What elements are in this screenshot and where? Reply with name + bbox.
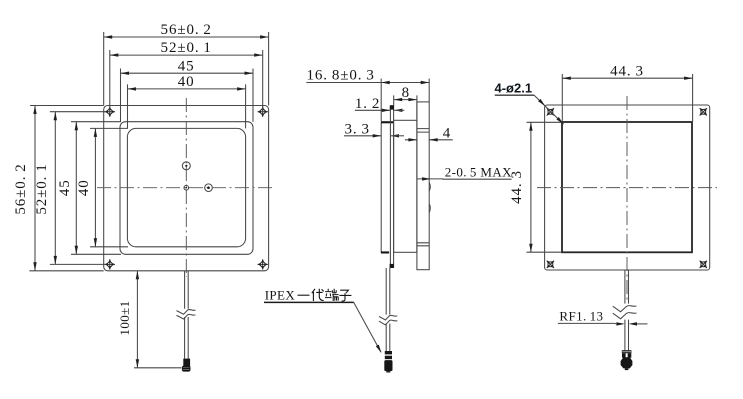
svg-text:100±1: 100±1 bbox=[117, 300, 132, 335]
dim 52±0.1 top: extension lines bbox=[110, 50, 263, 112]
foam tape thick top bar bbox=[381, 121, 393, 123]
mounting hole bottom-right (diagonal cross) bbox=[696, 257, 711, 272]
svg-text:4: 4 bbox=[443, 126, 451, 142]
dim 40 left: extension lines bbox=[90, 128, 128, 246]
IPEX connector front view bbox=[183, 359, 190, 367]
dim 45 left: dimension line bbox=[75, 122, 77, 255]
inner rounded square 45 bbox=[120, 122, 253, 255]
leader to connector bbox=[354, 302, 381, 352]
dim 100±1: extension line bottom bbox=[134, 367, 182, 369]
horizontal centerline bbox=[97, 187, 275, 189]
radome body (8 wide) bbox=[394, 120, 417, 252]
patch square 44.3 (thick) bbox=[562, 122, 692, 252]
leader to hole bbox=[534, 95, 563, 124]
small center hole bbox=[184, 185, 189, 190]
glyph 一 bbox=[298, 294, 310, 296]
dim 45 top: dimension line bbox=[121, 72, 254, 74]
inner rounded square 40 bbox=[127, 128, 245, 246]
dim 16.8±0.3: extension lines bbox=[381, 79, 429, 122]
front panel sheet (1.2 thick) bbox=[390, 106, 393, 268]
dim 40 top: dimension line bbox=[128, 88, 246, 90]
snap bump upper (0.5 max) bbox=[429, 183, 430, 192]
glyph 子 bbox=[339, 290, 351, 301]
dim 8: dimension line bbox=[394, 99, 417, 101]
back plate (4 thick) bbox=[417, 102, 429, 270]
LED hole upper bbox=[182, 162, 190, 170]
svg-text:16. 8±0. 3: 16. 8±0. 3 bbox=[307, 68, 375, 84]
glyph 端 bbox=[325, 289, 339, 301]
IPEX connector back view (hex body) bbox=[621, 357, 633, 368]
svg-text:52±0. 1: 52±0. 1 bbox=[161, 40, 212, 56]
vertical centerline bbox=[626, 96, 628, 302]
front panel bottom cap bbox=[390, 264, 394, 268]
mounting hole bottom-right bbox=[258, 259, 268, 269]
svg-text:56±0. 2: 56±0. 2 bbox=[13, 163, 29, 214]
vertical centerline bbox=[185, 98, 187, 277]
svg-text:44. 3: 44. 3 bbox=[509, 170, 525, 204]
foam tape layer (3.3) left edge bbox=[380, 122, 382, 252]
hole right of center bbox=[205, 184, 213, 192]
cable break symbol (large S-curves) bbox=[613, 306, 637, 312]
svg-text:3. 3: 3. 3 bbox=[345, 122, 370, 138]
coax cable side view bbox=[386, 268, 390, 351]
dim 44.3 left: dimension line bbox=[530, 122, 532, 252]
dim 45 top: extension lines bbox=[121, 69, 254, 122]
svg-text:45: 45 bbox=[178, 58, 195, 74]
cable break symbol bbox=[177, 309, 196, 314]
svg-text:44. 3: 44. 3 bbox=[610, 63, 644, 79]
svg-text:56±0. 2: 56±0. 2 bbox=[161, 22, 212, 38]
dim 52±0.1 left: extension lines bbox=[50, 112, 106, 265]
mounting hole top-left bbox=[105, 107, 115, 117]
glyph 代 bbox=[312, 289, 324, 301]
front plate outline 56x56 bbox=[104, 106, 269, 271]
dim 44.3 top: dimension line bbox=[562, 77, 692, 79]
front panel top cap bbox=[390, 105, 394, 109]
foam tape thick bottom bar bbox=[381, 251, 389, 253]
cable diameter arrows bbox=[637, 323, 648, 325]
coax cable back view bbox=[625, 270, 629, 350]
svg-text:2-0. 5 MAX: 2-0. 5 MAX bbox=[445, 165, 512, 180]
dim 52±0.1 left: dimension line bbox=[54, 112, 56, 265]
svg-text:1. 2: 1. 2 bbox=[355, 96, 380, 112]
dim 100±1: dimension line bbox=[136, 271, 138, 368]
svg-text:RF1. 13: RF1. 13 bbox=[559, 309, 603, 324]
coax cable front view bbox=[185, 271, 189, 359]
clip slot lower bbox=[417, 243, 429, 246]
IPEX connector back view (crimp collar) bbox=[622, 350, 632, 353]
dim 56±0.2 left: extension lines bbox=[29, 106, 103, 271]
snap bump lower (0.5 max) bbox=[429, 204, 430, 213]
dim 44.3 left: extension lines bbox=[527, 122, 563, 252]
mounting hole top-right (diagonal cross) bbox=[696, 104, 711, 119]
dim 40 top: extension lines bbox=[128, 84, 246, 128]
dim 56±0.2 left: dimension line bbox=[34, 106, 36, 271]
svg-text:40: 40 bbox=[178, 74, 195, 90]
horizontal centerline bbox=[537, 187, 717, 189]
clip slot upper bbox=[417, 129, 429, 133]
back plate outline 56x56 bbox=[545, 105, 710, 270]
dim 45 left: extension lines bbox=[71, 122, 121, 255]
dim 44.3 top: extension lines bbox=[562, 74, 692, 122]
svg-text:4-ø2.1: 4-ø2.1 bbox=[495, 81, 533, 96]
dim 40 left: dimension line bbox=[94, 128, 96, 246]
svg-text:40: 40 bbox=[76, 179, 92, 196]
dim 52±0.1 top: dimension line bbox=[110, 54, 263, 56]
svg-text:8: 8 bbox=[402, 85, 410, 101]
svg-text:52±0. 1: 52±0. 1 bbox=[34, 163, 50, 214]
cable break symbol side bbox=[379, 315, 397, 320]
dim 8: extension lines bbox=[394, 95, 417, 120]
dim 56±0.2 top: extension lines bbox=[104, 32, 269, 106]
mounting hole top-left (diagonal cross) bbox=[543, 104, 558, 119]
dim 56±0.2 top: dimension line bbox=[104, 36, 269, 38]
svg-text:IPEX: IPEX bbox=[265, 288, 296, 303]
mounting hole bottom-left bbox=[105, 259, 115, 269]
mounting hole top-right bbox=[258, 107, 268, 117]
IPEX connector back view (prongs) bbox=[622, 353, 626, 357]
IPEX connector side view (striped crimp) bbox=[385, 351, 392, 354]
svg-text:45: 45 bbox=[57, 179, 73, 196]
dim 4: dimension line + arrows bbox=[405, 139, 453, 141]
mounting hole bottom-left (diagonal cross) bbox=[543, 257, 558, 272]
